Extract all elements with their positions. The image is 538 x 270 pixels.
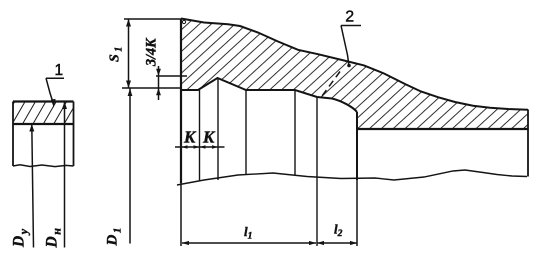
socket 2 hatch: [181, 19, 528, 130]
dimension Dy: [32, 125, 34, 248]
socket 2 right end face: [527, 110, 529, 177]
socket 2 inner wall right: [356, 112, 358, 180]
svg-text:1: 1: [55, 62, 64, 79]
svg-text:D1: D1: [105, 228, 124, 247]
socket 2 outer profile: [181, 19, 528, 110]
socket 2 inner surface right: [357, 128, 528, 130]
bore edge line a: [199, 90, 201, 181]
socket 2 left end face: [180, 19, 182, 183]
dimension D1: [129, 89, 131, 244]
socket 2 bore profile with bead peak: [181, 78, 357, 112]
break line wavy: [177, 170, 527, 185]
leader 2: [341, 26, 361, 67]
svg-text:K: K: [202, 128, 216, 147]
svg-text:Dу: Dу: [10, 228, 30, 248]
svg-text:l2: l2: [334, 222, 343, 240]
dimension 3/4K: [156, 66, 187, 100]
pipe 1 hatch: [13, 102, 74, 125]
dimension Dn: [64, 102, 66, 248]
hidden socket bottom dashed line: [322, 72, 340, 97]
svg-text:2: 2: [345, 8, 354, 25]
svg-text:K: K: [183, 128, 197, 147]
svg-text:Dн: Dн: [44, 228, 64, 249]
bore edge line d: [294, 90, 296, 176]
dimension K K: [175, 146, 225, 148]
bore edge line b: [217, 79, 219, 180]
svg-text:S1: S1: [108, 47, 125, 62]
extension line l1/l2: [316, 97, 318, 246]
extension line l1 left: [180, 183, 182, 246]
corner pinhole dot: [182, 20, 185, 23]
bore edge line c: [245, 90, 247, 175]
extension line l2 right: [356, 180, 358, 246]
dimension l2: [317, 242, 357, 244]
pipe 1 outline: [13, 102, 74, 167]
svg-text:l1: l1: [244, 224, 252, 242]
svg-text:3/4K: 3/4K: [144, 37, 160, 67]
dimension S1: [122, 19, 181, 88]
leader 1: [46, 78, 64, 105]
dimension l1: [182, 242, 316, 244]
